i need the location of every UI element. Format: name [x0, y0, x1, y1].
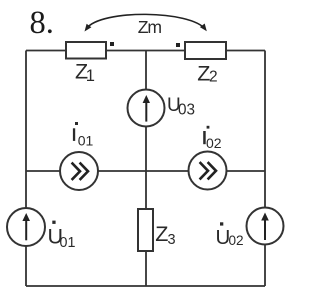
svg-text:01: 01: [78, 132, 94, 148]
svg-text:8.: 8.: [30, 5, 54, 41]
svg-text:02: 02: [206, 135, 222, 151]
svg-text:03: 03: [178, 101, 195, 118]
svg-text:01: 01: [60, 235, 76, 251]
svg-text:02: 02: [229, 233, 244, 248]
svg-text:1: 1: [86, 67, 95, 85]
svg-text:Z: Z: [155, 222, 168, 246]
svg-text:3: 3: [168, 232, 176, 248]
svg-text:Zm: Zm: [138, 17, 162, 37]
svg-text:2: 2: [209, 68, 218, 85]
